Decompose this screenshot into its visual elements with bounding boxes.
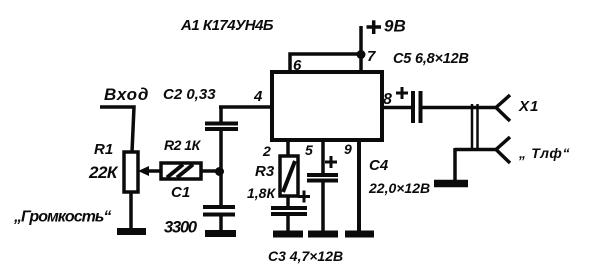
capacitor C2 label 0,33 [163,86,216,103]
connector X1 label [518,98,539,115]
resistor R1 potentiometer body [124,152,138,192]
capacitor C1 plates [203,207,235,215]
pin 7 label [367,48,376,65]
power 9В label [384,17,406,36]
resistor R3 value 1,8К [247,185,276,201]
svg-text:22,0×12В: 22,0×12В [368,180,430,196]
capacitor C5 plates [413,91,421,123]
power +9В plus sign [367,20,382,34]
capacitor C4 plates [307,175,338,181]
svg-text:1,8К: 1,8К [247,185,276,201]
ground under C3 [273,231,303,238]
resistor R3 label [255,163,275,180]
node supply junction dot [357,50,366,59]
resistor R3 body [280,156,298,196]
svg-text:22К: 22К [88,163,119,182]
wire C1 to ground [219,215,223,231]
node Вход label [104,85,149,104]
capacitor C5 label 6,8×12В [393,51,469,67]
resistor R2 body [161,163,201,179]
node Громкость label [13,209,111,226]
svg-text:R3: R3 [255,163,275,180]
svg-text:С2 0,33: С2 0,33 [163,86,216,103]
wire R3 to C3 [286,196,290,207]
svg-text:Х1: Х1 [518,98,539,115]
svg-text:7: 7 [367,48,376,65]
svg-text:4: 4 [253,88,263,105]
node Тлф label [518,145,570,161]
connector X1 body lines [472,104,478,151]
pin 4 label [253,88,263,105]
pin 8 label [383,91,392,108]
resistor R2 label 1К [164,137,202,153]
wire C2 to junction to C1 [219,130,223,206]
svg-text:3300: 3300 [164,219,198,237]
capacitor C1 label [171,184,190,201]
resistor R1 value 22К [88,163,119,182]
svg-text:С5 6,8×12В: С5 6,8×12В [393,51,469,67]
node junction dot [215,167,224,176]
svg-text:„Громкость“: „Громкость“ [13,209,111,226]
svg-text:А1 К174УН4Б: А1 К174УН4Б [180,17,274,34]
op-amp U1 title А1 К174УН4Б [180,17,274,34]
svg-text:R2 1К: R2 1К [164,137,202,153]
svg-text:R1: R1 [94,141,113,158]
wire connector ground lead [453,148,457,180]
svg-text:2: 2 [262,143,271,159]
wire node to pin 4 [219,105,272,109]
wire pin 5 to C4 [321,140,325,174]
svg-text:С1: С1 [171,184,190,201]
svg-text:С4: С4 [369,157,389,174]
wire pin 6 loop to supply node [290,54,358,72]
svg-text:6: 6 [293,57,302,74]
resistor R1 label [94,141,113,158]
capacitor C5 plus sign [396,87,408,99]
capacitor C4 value 22,0×12В [368,180,430,196]
ground under R1 [117,228,146,235]
wire pin 8 to C5 [381,106,411,110]
wire C3 to ground [286,215,290,231]
wire R2 to node [201,169,217,173]
wire pin 2 to R3 [286,140,290,157]
pin 9 label [344,141,352,157]
wire node up to C2 [219,107,223,122]
wire C5 to connector X1 [422,106,497,110]
pin 2 label [262,143,271,159]
ground under connector [434,180,468,188]
capacitor C3 plates [271,208,307,214]
svg-text:Вход: Вход [104,85,149,104]
wire R1 wiper arrow [138,166,160,176]
svg-text:С3 4,7×12В: С3 4,7×12В [268,248,343,264]
capacitor C2 plates [205,124,238,130]
svg-text:8: 8 [383,91,392,108]
ground under pin 9 [345,231,374,238]
wire +9В supply to pin 7 [359,26,363,72]
ground under C4 [308,231,338,238]
wire C4 to ground [321,181,325,231]
wire ground to bottom socket [455,148,497,152]
pin 6 label [293,57,302,74]
op-amp U1 body К174УН4Б [272,72,382,140]
capacitor C4 label [369,157,389,174]
connector X1 bottom socket fork [496,137,510,163]
svg-text:5: 5 [305,142,313,158]
wire pin 9 to ground [357,140,361,231]
capacitor C3 plus sign [298,191,310,203]
pin 5 label [305,142,313,158]
svg-text:9: 9 [344,141,352,157]
svg-text:9В: 9В [384,17,406,36]
ground under C1 [205,230,236,237]
capacitor C1 value 3300 [164,219,198,237]
wire input to R1 top [100,107,134,152]
wire R1 bottom lead [129,192,133,229]
capacitor C4 plus sign [325,156,337,168]
capacitor C3 label 4,7×12В [268,248,343,264]
svg-text:„ Тлф“: „ Тлф“ [518,145,570,161]
connector X1 top socket fork [496,95,510,121]
